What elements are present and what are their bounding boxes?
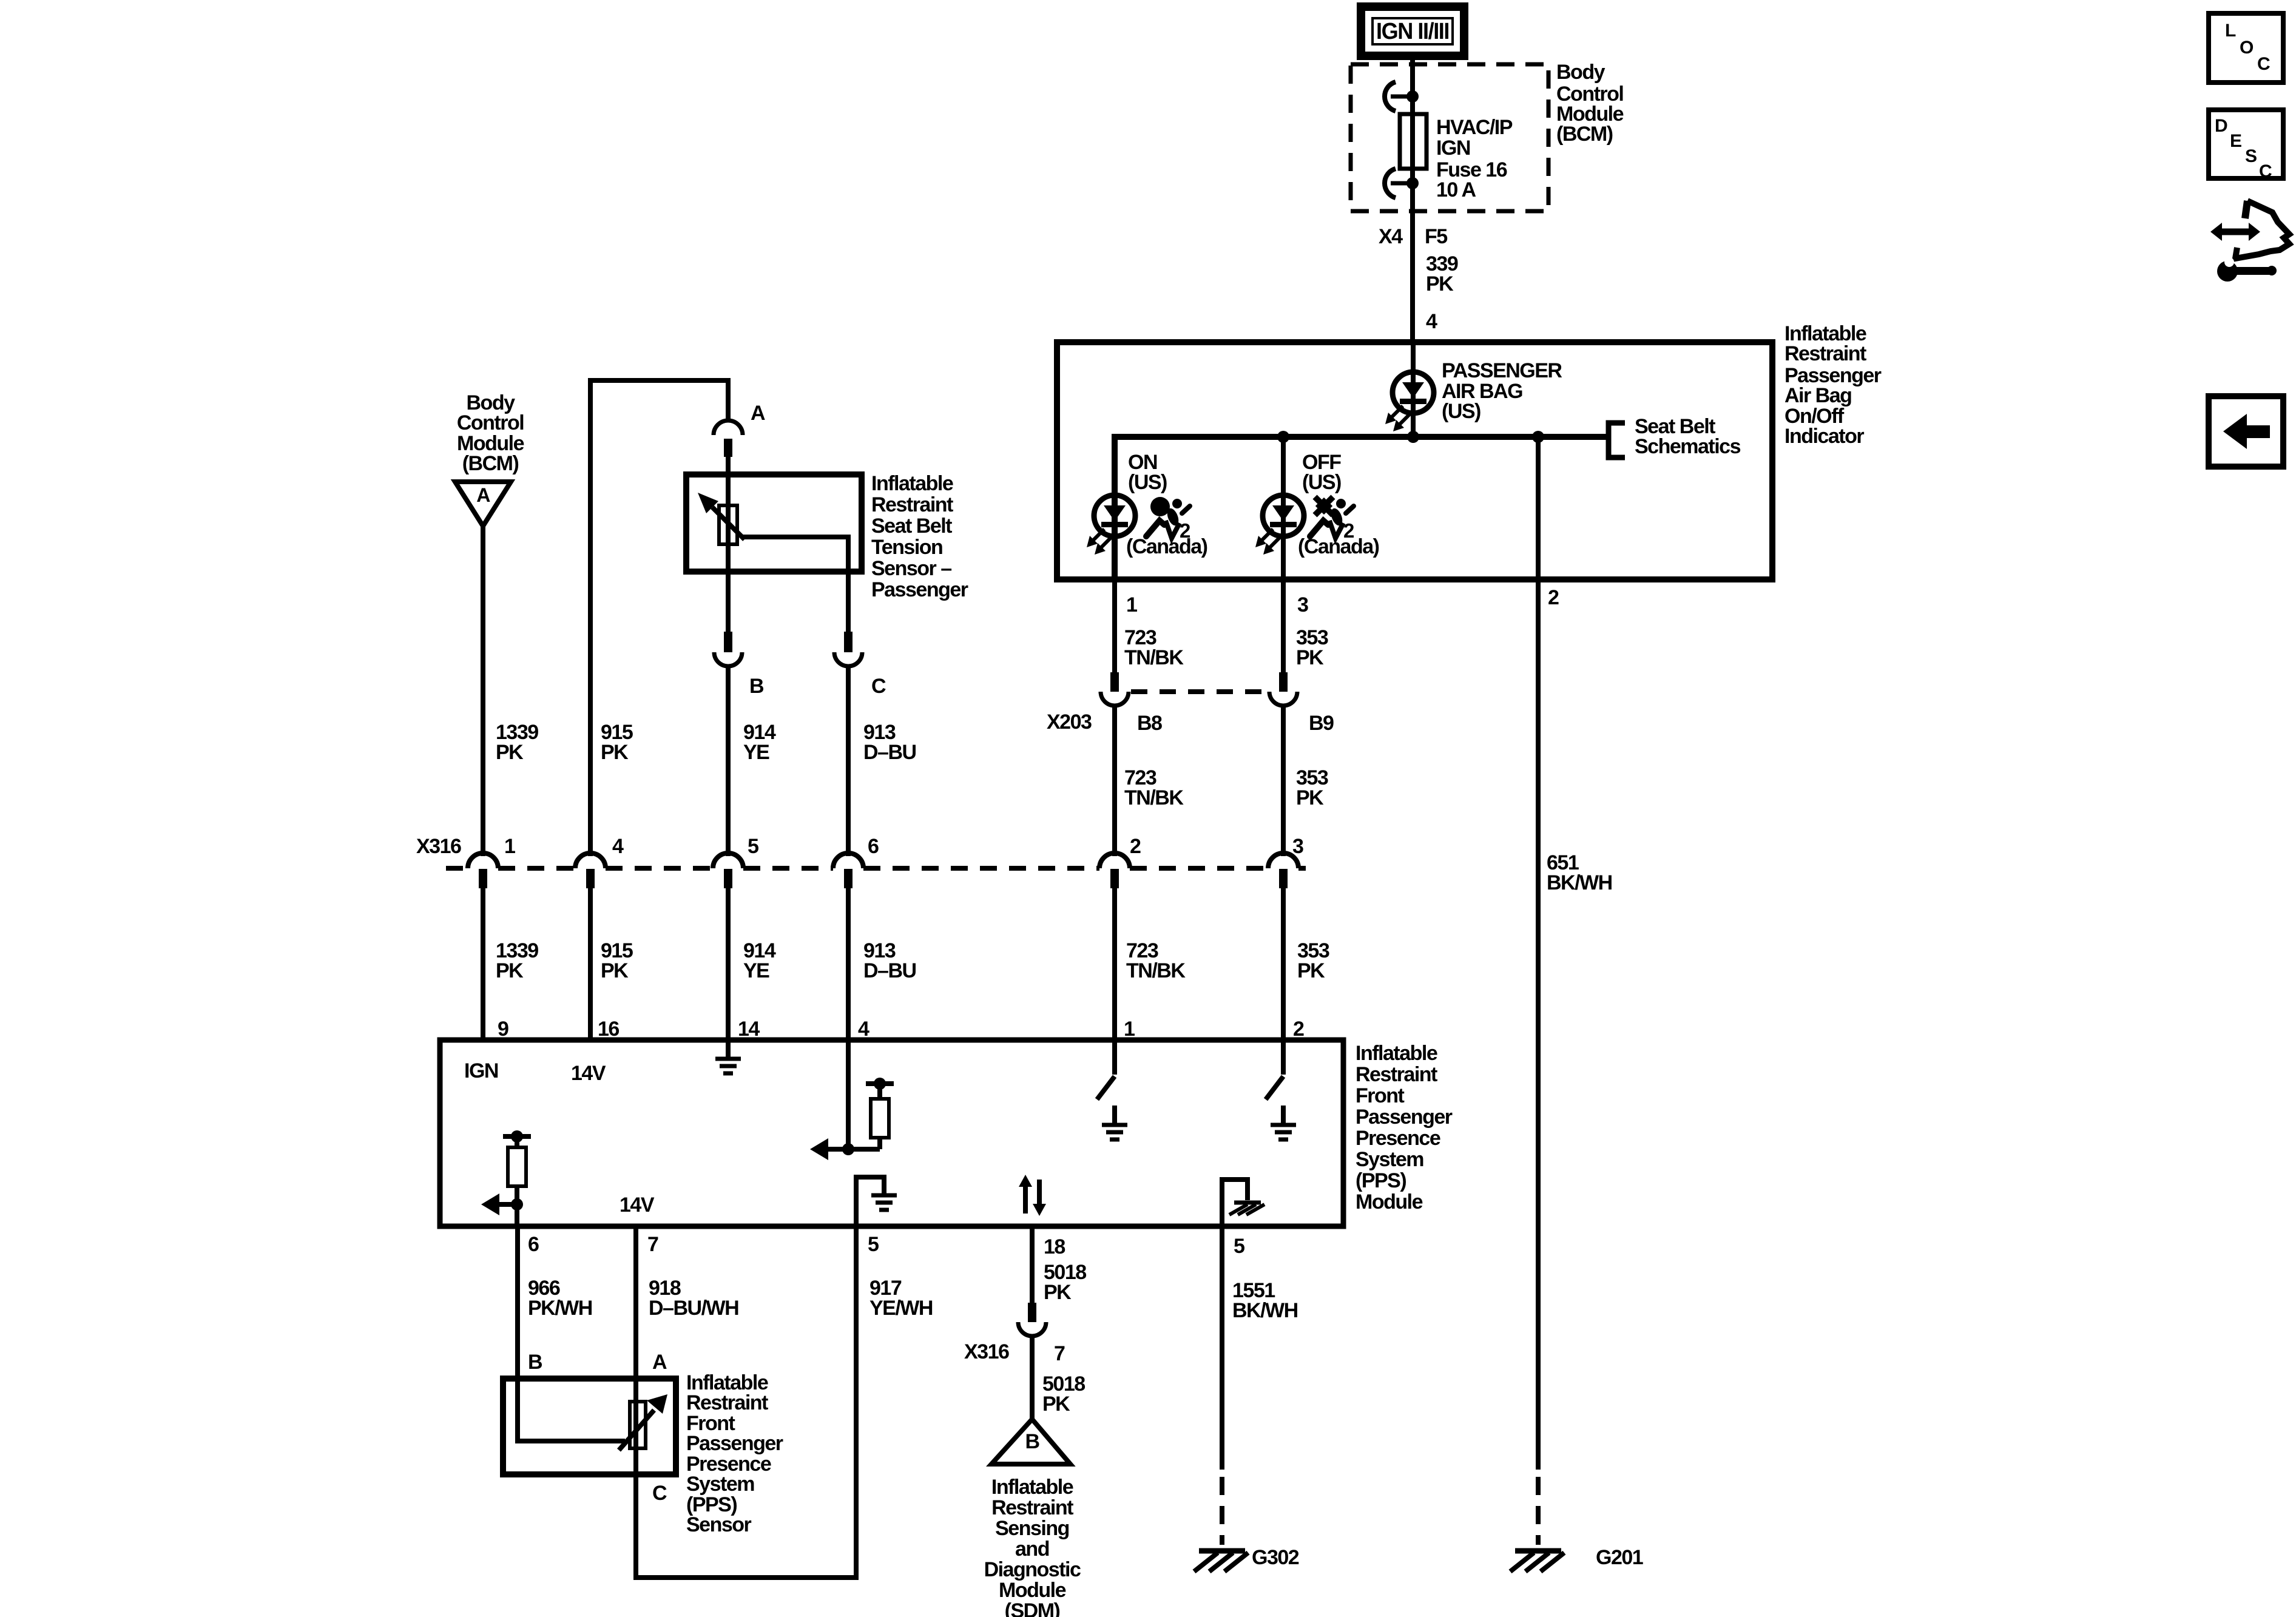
svg-text:Tension: Tension — [871, 536, 942, 559]
svg-text:(PPS): (PPS) — [1356, 1169, 1406, 1192]
svg-text:X203: X203 — [1047, 711, 1092, 734]
svg-text:Module: Module — [1356, 1190, 1423, 1214]
svg-text:Inflatable: Inflatable — [991, 1476, 1073, 1499]
svg-text:IGN: IGN — [1436, 137, 1470, 160]
svg-text:Passenger: Passenger — [871, 578, 968, 601]
svg-text:Indicator: Indicator — [1784, 425, 1864, 448]
svg-text:PK: PK — [1044, 1281, 1072, 1304]
svg-text:Sensor: Sensor — [686, 1513, 752, 1536]
svg-text:6: 6 — [528, 1233, 539, 1256]
svg-text:9: 9 — [498, 1018, 508, 1041]
svg-text:TN/BK: TN/BK — [1124, 646, 1184, 669]
svg-text:PK: PK — [1297, 959, 1325, 982]
svg-text:Inflatable: Inflatable — [1356, 1042, 1437, 1065]
svg-text:and: and — [1015, 1538, 1049, 1561]
svg-text:1: 1 — [1124, 1018, 1135, 1041]
svg-text:2: 2 — [1130, 835, 1141, 858]
svg-text:5: 5 — [868, 1233, 879, 1256]
svg-text:Passenger: Passenger — [1356, 1106, 1453, 1129]
svg-text:(Canada): (Canada) — [1298, 535, 1379, 558]
svg-text:TN/BK: TN/BK — [1124, 786, 1184, 809]
svg-text:G201: G201 — [1596, 1546, 1643, 1569]
svg-text:PK: PK — [601, 741, 629, 764]
svg-text:F5: F5 — [1425, 225, 1447, 248]
svg-text:YE: YE — [743, 741, 769, 764]
svg-text:Front: Front — [1356, 1084, 1405, 1107]
svg-text:(Canada): (Canada) — [1126, 535, 1207, 558]
svg-text:Restraint: Restraint — [991, 1496, 1073, 1519]
svg-text:PASSENGER: PASSENGER — [1442, 359, 1562, 382]
svg-text:S: S — [2245, 146, 2257, 166]
svg-text:G302: G302 — [1252, 1546, 1299, 1569]
svg-text:C: C — [2257, 54, 2270, 74]
svg-text:X4: X4 — [1379, 225, 1403, 248]
svg-text:Body: Body — [1556, 61, 1606, 84]
svg-text:Sensor –: Sensor – — [871, 557, 951, 580]
svg-text:PK: PK — [601, 959, 629, 982]
svg-text:7: 7 — [647, 1233, 658, 1256]
svg-text:B: B — [749, 675, 764, 698]
svg-text:System: System — [686, 1473, 754, 1496]
svg-text:PK: PK — [496, 741, 524, 764]
svg-text:(BCM): (BCM) — [462, 452, 519, 475]
svg-text:IGN: IGN — [464, 1059, 498, 1082]
svg-text:14V: 14V — [620, 1193, 655, 1217]
svg-text:YE/WH: YE/WH — [869, 1297, 933, 1320]
svg-text:Module: Module — [999, 1579, 1066, 1602]
svg-text:C: C — [871, 675, 886, 698]
svg-text:D–BU: D–BU — [863, 959, 916, 982]
svg-text:5: 5 — [1234, 1235, 1244, 1258]
svg-text:3: 3 — [1297, 593, 1308, 616]
svg-text:C: C — [2259, 161, 2272, 181]
svg-text:18: 18 — [1044, 1235, 1065, 1258]
svg-text:B: B — [1025, 1430, 1039, 1453]
svg-text:Diagnostic: Diagnostic — [984, 1558, 1081, 1581]
svg-text:Presence: Presence — [1356, 1127, 1440, 1150]
svg-text:Control: Control — [457, 411, 524, 434]
svg-text:4: 4 — [1426, 310, 1437, 333]
svg-text:(SDM): (SDM) — [1005, 1599, 1060, 1617]
svg-text:10 A: 10 A — [1436, 178, 1476, 201]
svg-text:1: 1 — [1126, 593, 1137, 616]
svg-text:4: 4 — [612, 835, 624, 858]
svg-text:D: D — [2215, 116, 2227, 136]
svg-text:2: 2 — [1548, 586, 1559, 609]
svg-text:Restraint: Restraint — [1784, 342, 1866, 365]
svg-text:(US): (US) — [1442, 400, 1481, 423]
svg-text:D–BU: D–BU — [863, 741, 916, 764]
svg-text:14: 14 — [738, 1018, 760, 1041]
svg-text:YE: YE — [743, 959, 769, 982]
svg-text:A: A — [751, 402, 765, 425]
svg-text:1: 1 — [504, 835, 515, 858]
svg-text:5: 5 — [748, 835, 758, 858]
svg-text:(US): (US) — [1128, 471, 1167, 494]
svg-text:A: A — [476, 484, 490, 506]
svg-text:(BCM): (BCM) — [1556, 123, 1613, 146]
svg-text:TN/BK: TN/BK — [1126, 959, 1186, 982]
svg-text:Schematics: Schematics — [1635, 435, 1741, 458]
svg-text:Restraint: Restraint — [871, 493, 953, 516]
svg-text:D–BU/WH: D–BU/WH — [649, 1297, 738, 1320]
svg-text:PK: PK — [496, 959, 524, 982]
svg-text:Sensing: Sensing — [995, 1517, 1069, 1540]
svg-text:Passenger: Passenger — [686, 1432, 783, 1455]
svg-text:3: 3 — [1292, 835, 1303, 858]
svg-text:HVAC/IP: HVAC/IP — [1436, 116, 1513, 139]
svg-text:14V: 14V — [571, 1062, 606, 1085]
svg-text:Inflatable: Inflatable — [871, 472, 953, 495]
svg-text:7: 7 — [1054, 1342, 1065, 1365]
svg-text:BK/WH: BK/WH — [1232, 1299, 1298, 1322]
svg-text:6: 6 — [868, 835, 879, 858]
svg-text:X316: X316 — [416, 835, 461, 858]
svg-text:Seat Belt: Seat Belt — [871, 515, 952, 538]
svg-text:BK/WH: BK/WH — [1547, 871, 1612, 894]
svg-text:A: A — [652, 1351, 667, 1374]
svg-text:C: C — [652, 1482, 667, 1505]
svg-text:B: B — [528, 1351, 542, 1374]
svg-text:E: E — [2230, 131, 2241, 151]
svg-text:PK: PK — [1042, 1393, 1070, 1416]
svg-text:B9: B9 — [1309, 712, 1334, 735]
svg-text:2: 2 — [1293, 1018, 1304, 1041]
svg-text:B8: B8 — [1137, 712, 1162, 735]
svg-text:Air Bag: Air Bag — [1784, 384, 1851, 407]
svg-text:O: O — [2240, 38, 2254, 58]
svg-text:L: L — [2225, 21, 2236, 41]
svg-text:Restraint: Restraint — [1356, 1063, 1437, 1086]
svg-text:Restraint: Restraint — [686, 1391, 768, 1414]
svg-text:PK/WH: PK/WH — [528, 1297, 592, 1320]
svg-text:(US): (US) — [1302, 471, 1341, 494]
svg-text:PK: PK — [1426, 272, 1454, 295]
svg-text:16: 16 — [598, 1018, 619, 1041]
svg-text:X316: X316 — [964, 1340, 1009, 1363]
svg-text:IGN II/III: IGN II/III — [1376, 19, 1449, 44]
svg-text:System: System — [1356, 1148, 1423, 1171]
svg-text:4: 4 — [858, 1018, 869, 1041]
svg-text:PK: PK — [1296, 786, 1324, 809]
svg-text:PK: PK — [1296, 646, 1324, 669]
